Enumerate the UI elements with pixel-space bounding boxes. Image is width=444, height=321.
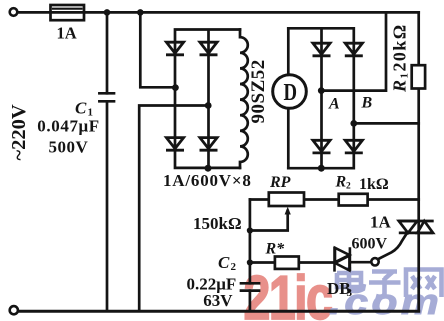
svg-text:63V: 63V xyxy=(203,291,233,310)
svg-text:D: D xyxy=(284,79,298,106)
svg-text:2: 2 xyxy=(231,261,237,273)
svg-text:3: 3 xyxy=(347,287,353,299)
svg-text:20kΩ: 20kΩ xyxy=(390,23,410,71)
svg-text:R*: R* xyxy=(265,241,286,258)
svg-text:C: C xyxy=(75,99,87,118)
svg-text:R: R xyxy=(335,174,347,191)
svg-text:~220V: ~220V xyxy=(8,104,30,160)
svg-text:1A/600V×8: 1A/600V×8 xyxy=(163,171,252,190)
svg-text:A: A xyxy=(328,96,340,113)
svg-text:1kΩ: 1kΩ xyxy=(359,176,389,193)
svg-text:RP: RP xyxy=(269,174,291,191)
svg-text:90SZ52: 90SZ52 xyxy=(248,59,269,123)
svg-text:0.047μF: 0.047μF xyxy=(37,117,99,136)
svg-text:600V: 600V xyxy=(352,236,388,253)
svg-text:150kΩ: 150kΩ xyxy=(193,214,242,233)
svg-text:1: 1 xyxy=(399,73,411,79)
svg-text:500V: 500V xyxy=(49,137,89,156)
svg-text:B: B xyxy=(361,95,373,112)
svg-text:1A: 1A xyxy=(370,213,392,232)
svg-text:C: C xyxy=(218,253,230,272)
svg-text:1A: 1A xyxy=(57,24,77,43)
svg-text:2: 2 xyxy=(346,182,351,192)
svg-text:R: R xyxy=(390,80,410,93)
